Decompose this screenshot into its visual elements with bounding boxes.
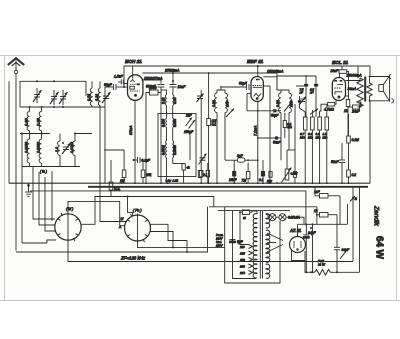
svg-text:0.0590: 0.0590 — [173, 145, 177, 155]
wire — [172, 73, 174, 85]
wire anode to transformer — [346, 78, 361, 81]
capacitor 10nF — [170, 80, 187, 89]
svg-text:0.0032: 0.0032 — [162, 145, 166, 155]
wire EBF11 cathode down — [257, 102, 259, 184]
inductor L7 0.36 — [90, 88, 92, 106]
svg-text:87mA: 87mA — [129, 125, 133, 135]
resistor grid 4.7M box — [324, 102, 335, 111]
svg-text:64μF: 64μF — [342, 248, 350, 252]
svg-text:ZF=128 kHz: ZF=128 kHz — [120, 256, 146, 261]
trimmer capacitor C5 — [102, 92, 111, 103]
wire AZ11 filament loop — [292, 251, 306, 261]
svg-text:32 W: 32 W — [318, 263, 326, 267]
wire to cap chain — [143, 80, 162, 84]
trimmer core arrow T3 — [284, 101, 293, 112]
capacitor 20nF top box — [330, 66, 349, 100]
wire rail y73 — [143, 73, 278, 90]
pilot lamp P1 — [269, 214, 276, 221]
svg-text:2nF: 2nF — [185, 114, 193, 118]
svg-text:50pF: 50pF — [239, 82, 248, 86]
wire bus B2 chassis — [88, 186, 368, 188]
wire cathode down — [134, 100, 136, 183]
svg-text:nF: nF — [300, 91, 304, 95]
wire coil bank verticals — [29, 107, 31, 112]
wire bus B1 — [9, 182, 370, 184]
capacitor 5uF — [230, 240, 244, 245]
IF transformer T3 secondary — [289, 93, 291, 113]
svg-text:1500/5mA: 1500/5mA — [267, 70, 284, 74]
wire secondary taps — [369, 77, 371, 84]
wire cathode net — [346, 95, 349, 97]
wire switch drop — [352, 187, 354, 261]
capacitor 1nF box tone — [314, 187, 340, 198]
svg-text:220V: 220V — [215, 244, 224, 248]
wire det row — [304, 112, 306, 117]
wire speaker top — [370, 76, 389, 78]
svg-text:M: M — [121, 217, 124, 221]
wire right loop — [339, 196, 341, 225]
wire antenna down lead — [15, 74, 17, 251]
wire taps feed — [240, 218, 249, 245]
wire screen — [263, 85, 270, 87]
wire — [20, 133, 50, 135]
node antenna terminal — [14, 70, 17, 73]
resistor R6 — [242, 159, 250, 183]
wire bus B4 — [81, 197, 214, 225]
trimmer capacitor C2 — [50, 90, 59, 105]
wire det top links — [296, 85, 306, 87]
trimmer core arrow T2 — [226, 109, 234, 118]
resistor field coil zigzag — [315, 270, 331, 276]
wire left drops — [145, 107, 147, 160]
switch S on pot — [350, 196, 358, 202]
svg-text:MΩ: MΩ — [316, 135, 321, 139]
wire band section — [189, 131, 191, 160]
IF transformer T3 primary — [279, 93, 281, 113]
svg-text:50nF: 50nF — [273, 141, 281, 145]
svg-text:0.80: 0.80 — [24, 117, 29, 126]
wire — [20, 106, 105, 108]
svg-text:0.0026: 0.0026 — [25, 142, 29, 153]
tube U3 internals — [334, 81, 343, 98]
resistor diode load — [283, 121, 286, 128]
wire grid — [105, 86, 114, 88]
wire antenna bottom run to mains — [16, 207, 208, 252]
wire EBF11 anode to T3 — [263, 76, 277, 78]
wire T3 — [281, 90, 289, 93]
wire bottom collect — [22, 166, 80, 168]
svg-text:6.3/0.3A: 6.3/0.3A — [288, 216, 300, 220]
svg-text:ECH 11: ECH 11 — [125, 59, 142, 65]
wire mains bottom — [225, 221, 280, 283]
trimmer capacitor C3 — [59, 90, 68, 105]
svg-text:4k: 4k — [187, 166, 191, 170]
capacitor 3000 box — [149, 86, 158, 95]
page scan edges — [5, 56, 396, 300]
speaker LS1 terminals — [389, 74, 391, 78]
svg-text:25nF: 25nF — [228, 178, 238, 182]
SECTION: antenna — [8, 58, 24, 250]
transformer T5 core — [259, 211, 261, 279]
ground chassis — [25, 183, 32, 196]
tube U4 AZ11 envelope — [290, 237, 306, 253]
svg-text:0.03: 0.03 — [173, 97, 177, 104]
svg-text:1.0: 1.0 — [55, 147, 59, 152]
tuning gang section G1 — [55, 214, 81, 240]
resistor R4 — [140, 160, 152, 183]
SECTION: EBF11 stage — [239, 59, 293, 184]
capacitor 7.5nF — [304, 84, 308, 87]
wire HT diagonals — [267, 233, 283, 241]
capacitor 0.1uF mid — [133, 157, 151, 163]
node dots — [21, 80, 76, 144]
wire input box top — [20, 81, 86, 107]
resistor 1k box tone — [314, 209, 337, 217]
SECTION: IF transformers — [158, 72, 294, 183]
svg-text:50nF: 50nF — [331, 160, 340, 164]
oscillator shield box — [158, 114, 196, 177]
resistor R7 top right — [347, 114, 359, 170]
tube U1 ECH11 envelope — [128, 75, 143, 101]
wire anode top to rail — [132, 66, 134, 75]
wire antenna lead — [15, 61, 17, 71]
resistor in shield — [182, 164, 185, 171]
svg-text:( M ): ( M ) — [66, 207, 73, 211]
trimmer det wiper — [310, 109, 318, 115]
svg-text:250/36mA: 250/36mA — [346, 74, 363, 78]
inductor L3 0.0026 — [27, 139, 29, 163]
svg-text:1.2k: 1.2k — [173, 179, 179, 183]
wire heater winding to lamps — [266, 215, 269, 218]
svg-text:3nF: 3nF — [237, 154, 244, 158]
svg-text:220: 220 — [239, 264, 245, 268]
capacitor 0.1uF right — [334, 215, 350, 273]
wire gang1 bottom long return — [68, 242, 353, 262]
antenna A1 — [8, 58, 24, 66]
resistor pair at bus — [200, 170, 203, 176]
wire speaker bottom — [370, 100, 389, 102]
tube U3 ECL11 envelope — [332, 78, 345, 101]
svg-text:0.085: 0.085 — [173, 119, 177, 127]
wire cap chain — [158, 87, 161, 93]
wire output bus — [305, 261, 315, 273]
inductor L1 0.80 — [27, 112, 29, 131]
svg-text:36mA: 36mA — [348, 87, 357, 91]
wire bus to speaker return — [369, 101, 371, 183]
SECTION: input coil bank — [9, 80, 111, 243]
trimmer capacitor arrows — [186, 118, 196, 129]
svg-text:0.1M: 0.1M — [352, 138, 360, 142]
resistor cathode box — [344, 100, 350, 114]
wire mains left verticals — [224, 207, 226, 273]
svg-text:7.1mA: 7.1mA — [254, 125, 258, 136]
wire R1 — [208, 73, 210, 119]
svg-text:20nF: 20nF — [330, 69, 340, 73]
resistor R1 1M box — [207, 119, 217, 127]
capacitor 3nF box — [225, 154, 259, 162]
trimmer capacitor C1 — [33, 88, 42, 103]
svg-text:50pF: 50pF — [271, 114, 279, 118]
inductor L5 1.0 — [58, 141, 60, 155]
wire bus B3 HT rail — [30, 191, 306, 224]
wire nest L1 — [33, 167, 55, 220]
capacitor 64uF first — [303, 224, 316, 272]
svg-text:0.1: 0.1 — [259, 178, 264, 182]
output transformer T4 secondary — [367, 83, 372, 96]
svg-text:0.5M: 0.5M — [291, 172, 298, 176]
transformer T5 secondary — [266, 214, 270, 228]
wire fuse drop — [239, 212, 241, 218]
oscillator coil middle winding — [165, 118, 168, 128]
svg-text:N.S.: N.S. — [114, 187, 120, 191]
trimmer capacitor det — [299, 97, 306, 106]
capacitor 50nF AF — [258, 137, 275, 139]
label mains text block — [215, 233, 224, 248]
capacitor grid 50pF — [104, 83, 116, 90]
svg-text:( fa ): ( fa ) — [40, 170, 47, 174]
capacitor C mid2 — [259, 160, 265, 183]
svg-text:150: 150 — [240, 258, 245, 262]
tuning gang section G2 — [125, 215, 151, 241]
wire transformer top — [252, 211, 257, 214]
tone pot arrow — [340, 249, 348, 260]
tube U2 EBF11 envelope — [251, 77, 263, 102]
svg-text:0.080: 0.080 — [162, 119, 166, 127]
node dots power — [232, 211, 339, 273]
svg-text:7M: 7M — [242, 179, 247, 183]
output transformer T4 primary — [357, 78, 363, 107]
resistor R2 below bus — [109, 160, 120, 197]
wire left nest bottom — [22, 242, 47, 244]
svg-text:0.1: 0.1 — [203, 173, 208, 177]
inductor L6 0.0062 — [73, 141, 75, 155]
capacitor 50nF right — [331, 143, 345, 183]
svg-text:MΩ: MΩ — [287, 125, 292, 129]
wire nest bottoms — [47, 240, 56, 243]
wire osc drop — [104, 160, 106, 183]
wire EBF11 anode top — [257, 66, 259, 77]
tube U4 internals — [294, 241, 301, 250]
IF transformer T1 primary — [165, 95, 166, 106]
wire T1 links — [166, 106, 168, 118]
svg-text:0.1: 0.1 — [212, 123, 217, 127]
svg-text:24nF: 24nF — [351, 110, 361, 114]
svg-text:MΩ: MΩ — [300, 135, 305, 139]
wire left outer — [8, 81, 10, 183]
svg-text:110: 110 — [240, 245, 245, 249]
SECTION: ECH11 stage — [104, 59, 370, 183]
svg-text:nF: nF — [310, 91, 314, 95]
svg-text:( Fa ): ( Fa ) — [133, 209, 142, 213]
capacitor 24nF box — [351, 105, 361, 114]
pilot lamp P2 — [279, 214, 286, 221]
wire transformer top to rail — [357, 66, 359, 74]
wire bus B5 — [68, 201, 125, 225]
tube U1 internals — [130, 75, 140, 97]
svg-text:0.02: 0.02 — [162, 97, 166, 104]
svg-text:150pF: 150pF — [184, 130, 194, 134]
wire nest vertical — [51, 171, 53, 221]
capacitor small det — [298, 100, 302, 102]
wire T2 — [217, 90, 225, 93]
capacitor C mid 0.1 — [228, 160, 238, 183]
oscillator coil lower winding — [165, 141, 168, 159]
wire mains top rails — [209, 206, 317, 208]
wire AZ11 top — [297, 224, 299, 236]
mains voltage taps — [239, 245, 253, 275]
svg-text:64 W: 64 W — [374, 236, 385, 260]
svg-text:64μF: 64μF — [308, 231, 316, 235]
svg-text:250/2mA: 250/2mA — [164, 69, 180, 73]
SECTION: middle bus + small parts — [9, 75, 370, 272]
svg-text:0.2: 0.2 — [352, 173, 357, 177]
node dots on bus — [134, 182, 360, 187]
resistor R8 right — [347, 170, 357, 183]
potentiometer volume — [282, 150, 298, 183]
svg-text:3000: 3000 — [149, 86, 157, 90]
SECTION: ECL11 output stage + speaker — [320, 60, 394, 136]
wire grid stub upper — [124, 83, 128, 85]
wire gang2 bottom to power — [138, 243, 225, 248]
svg-text:240: 240 — [239, 271, 245, 275]
svg-text:Si: Si — [243, 216, 246, 220]
IF transformer T2 primary — [215, 93, 217, 113]
wire gang2 left link — [100, 110, 127, 222]
transformer T5 primary — [253, 214, 257, 278]
fuse F1 — [240, 210, 252, 220]
node dots T2 — [214, 100, 216, 102]
wire osc — [200, 90, 202, 96]
svg-text:4.7MΩ: 4.7MΩ — [324, 108, 334, 112]
svg-text:AZ 11: AZ 11 — [289, 228, 302, 233]
resistor AF stopper — [293, 150, 296, 183]
svg-text:100: 100 — [226, 101, 230, 107]
svg-text:0.63: 0.63 — [36, 117, 41, 126]
speaker LS1 — [379, 85, 384, 92]
svg-text:0.36: 0.36 — [87, 94, 91, 101]
IF transformer T2 secondary — [225, 93, 227, 113]
svg-text:ECL 11: ECL 11 — [332, 60, 348, 66]
svg-text:EBF 11: EBF 11 — [247, 59, 263, 65]
SECTION: gang capacitor circles — [16, 110, 353, 262]
wire gang2 right steps — [151, 224, 188, 252]
svg-text:0.1μ: 0.1μ — [166, 179, 172, 183]
svg-text:0.32: 0.32 — [95, 94, 99, 101]
IF transformer T1 secondary — [173, 95, 174, 106]
svg-text:10nF: 10nF — [178, 85, 187, 89]
wire B4 branch to gang2 — [128, 197, 133, 216]
svg-text:125: 125 — [240, 251, 245, 255]
resistor R3 1M — [104, 149, 126, 183]
wire det drop — [280, 138, 282, 160]
svg-text:0.0090: 0.0090 — [37, 142, 41, 153]
inductor L2 0.63 — [39, 112, 41, 131]
detector resistors row — [300, 117, 329, 139]
resistor R5 — [198, 171, 207, 178]
SECTION: power supply — [209, 207, 360, 283]
wire top rail y66 — [124, 66, 370, 87]
svg-text:1,5nF: 1,5nF — [114, 75, 124, 79]
capacitor 2.5nF — [314, 84, 318, 87]
capacitor 50pF input — [239, 82, 249, 91]
SECTION: right side texts — [373, 205, 385, 260]
wire grid — [320, 104, 328, 111]
svg-text:50pF: 50pF — [104, 83, 113, 87]
svg-text:10k: 10k — [146, 173, 152, 177]
inductor L8 0.32 — [98, 88, 100, 106]
output transformer T4 core — [364, 77, 366, 102]
padder trimmer — [199, 154, 207, 165]
capacitor 50pF coupling — [247, 110, 273, 112]
trimmer capacitor C4 — [62, 143, 71, 154]
wire nest L2 — [39, 172, 55, 225]
wire right vertical — [359, 187, 361, 272]
wire nest L3 — [45, 177, 55, 231]
resistor screen dropper — [266, 172, 272, 184]
svg-text:1k: 1k — [344, 109, 348, 113]
tube U2 internals — [253, 80, 262, 100]
svg-text:Zendik: Zendik — [373, 205, 380, 226]
inductor L4 0.0090 — [39, 139, 41, 163]
trimmer capacitor osc — [197, 94, 204, 103]
capacitor 500pF — [146, 85, 165, 89]
